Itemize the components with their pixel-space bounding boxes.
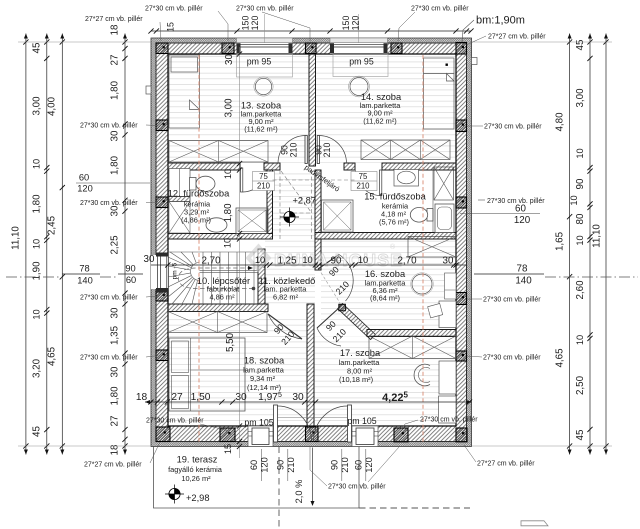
svg-text:pm 105: pm 105 (347, 416, 376, 426)
svg-text:10: 10 (575, 335, 585, 345)
svg-text:2,60: 2,60 (575, 280, 586, 300)
svg-text:27*30 cm vb. pillér: 27*30 cm vb. pillér (411, 6, 469, 13)
door to room 17 (317, 307, 340, 328)
svg-text:2,50: 2,50 (575, 375, 586, 395)
svg-text:27*27 cm vb. pillér: 27*27 cm vb. pillér (84, 462, 142, 469)
room 17 floor (314, 337, 456, 427)
svg-text:fagyálló kerámia: fagyálló kerámia (168, 465, 223, 474)
svg-text:10: 10 (32, 239, 42, 249)
svg-text:10: 10 (255, 255, 265, 265)
bath12 right wall (267, 170, 273, 234)
room 17 chair (414, 364, 430, 386)
svg-text:140: 140 (77, 276, 93, 286)
svg-text:27: 27 (171, 392, 183, 403)
door 2 swing (348, 405, 352, 442)
bottom terrace door 1 pm105 (248, 426, 273, 447)
svg-text:2,70: 2,70 (397, 256, 417, 267)
room 13 bed (169, 55, 200, 128)
svg-text:45: 45 (32, 426, 43, 437)
svg-text:1,65: 1,65 (555, 231, 566, 251)
room 13 floor (168, 54, 309, 163)
fraction 78/140 left (62, 273, 100, 275)
svg-text:10: 10 (302, 255, 312, 265)
svg-text:pm 95: pm 95 (349, 57, 374, 67)
svg-text:27*30 cm vb. pillér: 27*30 cm vb. pillér (483, 297, 541, 304)
pillar 27*30 right 3 (456, 293, 467, 305)
svg-text:10: 10 (358, 255, 368, 265)
svg-text:1,35: 1,35 (110, 325, 121, 345)
svg-text:®: ® (390, 243, 396, 251)
wardrobe (408, 237, 456, 258)
svg-text:30: 30 (292, 392, 304, 403)
svg-text:210: 210 (340, 457, 350, 473)
corridor floor (265, 239, 315, 307)
pillar 27*27 top-right corner (456, 43, 467, 55)
svg-text:27*30 cm vb. pillér: 27*30 cm vb. pillér (328, 484, 386, 491)
top window 2 (330, 38, 388, 54)
svg-text:18: 18 (110, 24, 121, 35)
svg-text:90: 90 (276, 460, 286, 470)
svg-text:10: 10 (569, 195, 579, 205)
svg-text:27*30 cm vb. pillér: 27*30 cm vb. pillér (80, 123, 138, 130)
watermark duna house (246, 243, 404, 273)
svg-text:27*30 cm vb. pillér: 27*30 cm vb. pillér (80, 355, 138, 362)
right dimension chains (569, 34, 571, 455)
svg-text:120: 120 (514, 215, 531, 226)
svg-text:210: 210 (289, 143, 299, 158)
window 2 interior niche (333, 54, 388, 77)
window 1 interior niche (237, 54, 293, 77)
svg-text:10,26 m²: 10,26 m² (181, 474, 211, 483)
pillar 27*30 bottom 1 (220, 428, 235, 442)
svg-text:(11,62 m²): (11,62 m²) (244, 125, 278, 134)
terrace door annotation fractions (260, 449, 262, 481)
room 18 bed (169, 338, 245, 411)
svg-text:3,00: 3,00 (224, 98, 235, 118)
hall top wall segments y163-170 (168, 163, 240, 170)
svg-text:16. szoba: 16. szoba (365, 269, 406, 279)
pillar 27*30 bottom 2 (306, 427, 319, 442)
small exterior fixture right (472, 58, 478, 65)
terrace slope arrow 2.0% (312, 448, 314, 505)
middle dimension chain (151, 264, 466, 266)
svg-text:60: 60 (249, 460, 259, 470)
door corridor to room 18 (268, 314, 302, 339)
svg-text:30: 30 (235, 392, 247, 403)
pillar 27*30 top-centre (306, 43, 317, 54)
door 1 swing (274, 405, 278, 442)
bath12 toilet (190, 176, 216, 191)
pillar 27*30 bottom 3 (394, 428, 408, 442)
svg-text:1,80: 1,80 (110, 386, 121, 406)
svg-text:27*30 cm vb. pillér: 27*30 cm vb. pillér (236, 6, 294, 13)
svg-text:1,80: 1,80 (223, 203, 234, 223)
svg-text:27: 27 (110, 55, 121, 66)
svg-text:80: 80 (575, 213, 586, 224)
room 14 closet column (424, 58, 455, 129)
level marker (165, 485, 184, 504)
orange section line right (422, 55, 424, 444)
room 14 wardrobe (361, 140, 450, 160)
pillar 27*27 bottom-left corner (156, 427, 170, 442)
wall between rooms 18 and 17 (307, 304, 314, 426)
svg-text:27*30 cm vb. pillér: 27*30 cm vb. pillér (483, 355, 541, 362)
svg-text:45: 45 (575, 39, 586, 50)
svg-text:30: 30 (224, 54, 235, 65)
svg-text:18: 18 (136, 392, 148, 403)
wall between rooms 16 and 17 (367, 330, 456, 337)
svg-text:4,00: 4,00 (47, 96, 58, 116)
wardrobe (434, 167, 454, 200)
svg-text:30: 30 (110, 307, 121, 318)
svg-text:60: 60 (126, 275, 136, 285)
svg-text:27: 27 (110, 416, 121, 427)
svg-text:27*30 cm vb. pillér: 27*30 cm vb. pillér (484, 124, 542, 131)
svg-text:10: 10 (575, 235, 585, 245)
wardrobe (369, 336, 456, 359)
svg-text:27*30 cm vb. pillér: 27*30 cm vb. pillér (80, 200, 138, 207)
svg-text:(4,86 m²): (4,86 m²) (181, 216, 211, 225)
svg-text:1,25: 1,25 (277, 256, 297, 267)
svg-text:1,50: 1,50 (191, 392, 211, 403)
svg-text:90: 90 (330, 460, 340, 470)
pillar 27*30 right 1 (456, 120, 467, 132)
bath15 shower (322, 200, 354, 232)
svg-text:5,50: 5,50 (225, 332, 236, 352)
bath15 toilet (410, 208, 433, 223)
door corridor to room 16 (318, 255, 339, 270)
svg-text:210: 210 (356, 182, 370, 191)
svg-text:1,80: 1,80 (32, 194, 43, 214)
svg-text:150: 150 (241, 16, 251, 31)
corridor bottom wall (168, 304, 268, 312)
svg-text:75: 75 (259, 172, 268, 181)
svg-text:12. fürdőszoba: 12. fürdőszoba (168, 189, 230, 199)
svg-text:120: 120 (260, 457, 270, 473)
central wall between rooms 13 and 14 (309, 54, 316, 166)
outer main wall band (156, 43, 467, 442)
room 18 floor (168, 315, 307, 426)
wardrobe (168, 312, 267, 333)
orange section line left (198, 55, 200, 444)
svg-text:(12,14 m²): (12,14 m²) (247, 383, 281, 392)
svg-text:90: 90 (125, 264, 135, 274)
diagonal wall between corridor and rooms 16/17 (338, 304, 376, 340)
svg-text:(8,64 m²): (8,64 m²) (370, 294, 400, 303)
room 17 cabinet (439, 396, 457, 423)
svg-text:10: 10 (223, 169, 233, 179)
fraction 60/120 right (460, 213, 540, 215)
svg-text:210: 210 (322, 143, 332, 158)
stair walking line (179, 268, 254, 289)
bath15 left wall (315, 170, 321, 233)
outer insulation band (151, 38, 472, 447)
bath12 door swing (241, 168, 243, 192)
bath12 shaft cabinet (169, 169, 190, 197)
svg-text:15: 15 (166, 22, 176, 32)
svg-text:11,10: 11,10 (11, 226, 22, 250)
room 17 desk (439, 361, 456, 394)
bath12 door size labels 75/210 (253, 172, 275, 191)
svg-text:1,80: 1,80 (110, 155, 121, 175)
pillar 27*30 top-right (391, 43, 402, 54)
svg-text:27*27 cm vb. pillér: 27*27 cm vb. pillér (488, 34, 546, 41)
svg-text:30: 30 (110, 130, 121, 141)
svg-text:4,65: 4,65 (47, 346, 58, 366)
svg-text:60: 60 (515, 204, 526, 215)
svg-text:15: 15 (223, 444, 233, 454)
bottom terrace door 2 pm105 (352, 426, 378, 447)
pillar 27*30 top (222, 43, 234, 54)
small exterior fixture left (146, 86, 151, 94)
svg-text:140: 140 (515, 276, 532, 287)
svg-text:30: 30 (110, 366, 121, 377)
svg-text:3,00: 3,00 (575, 88, 586, 108)
svg-text:10: 10 (223, 238, 233, 248)
svg-text:+2,87: +2,87 (293, 196, 317, 206)
svg-text:pm 95: pm 95 (247, 57, 272, 67)
svg-text:3,20: 3,20 (32, 358, 43, 378)
extension lines top/bottom (18, 41, 151, 43)
svg-text:2,45: 2,45 (47, 215, 58, 235)
pillar 27*27 bottom-right corner (456, 428, 467, 442)
svg-text:60: 60 (79, 173, 89, 183)
svg-text:30: 30 (443, 256, 454, 267)
attic hatch dashed outline (273, 170, 357, 239)
svg-text:45: 45 (32, 42, 43, 53)
room 14 round table (350, 78, 368, 96)
svg-text:9,34 m²: 9,34 m² (250, 374, 276, 383)
svg-text:bm:1,90m: bm:1,90m (476, 15, 525, 27)
bath15 washbasin (394, 170, 419, 187)
svg-text:27*30 cm vb. pillér: 27*30 cm vb. pillér (146, 418, 204, 425)
svg-text:27*30 cm vb. pillér: 27*30 cm vb. pillér (145, 6, 203, 13)
svg-text:90: 90 (331, 256, 342, 267)
svg-text:10: 10 (575, 148, 585, 158)
bath12 shower (236, 208, 268, 234)
fraction 90/60 left (118, 273, 143, 275)
corridor right wall stub (315, 239, 321, 270)
room 13 round table (255, 78, 271, 94)
pillar 27*27 top-left corner (156, 43, 168, 54)
left stair window (151, 253, 168, 293)
svg-text:60: 60 (354, 460, 364, 470)
svg-text:+2,98: +2,98 (186, 493, 210, 503)
fraction 78/140 right (474, 273, 544, 275)
svg-text:4,86 m²: 4,86 m² (209, 293, 235, 302)
pillar 27*30 right 2 (456, 197, 467, 208)
bath12 bottom wall (168, 234, 273, 240)
svg-text:120: 120 (364, 457, 374, 473)
svg-text:(10,18 m²): (10,18 m²) (339, 375, 373, 384)
svg-text:pm 105: pm 105 (244, 418, 273, 428)
svg-text:1,80: 1,80 (110, 80, 121, 100)
svg-text:11,10: 11,10 (592, 224, 603, 248)
svg-text:27*30 cm vb. pillér: 27*30 cm vb. pillér (80, 295, 138, 302)
svg-text:1,90: 1,90 (32, 261, 43, 281)
svg-text:90: 90 (575, 178, 586, 189)
svg-text:6,82 m²: 6,82 m² (273, 293, 299, 302)
room 14 floor (316, 54, 457, 163)
top window 1 (237, 38, 293, 54)
room 16 nightstand (445, 273, 457, 299)
svg-text:10: 10 (32, 309, 42, 319)
svg-text:4,65: 4,65 (555, 348, 566, 368)
svg-text:27*27 cm vb. pillér: 27*27 cm vb. pillér (85, 16, 143, 23)
svg-text:27*27 cm vb. pillér: 27*27 cm vb. pillér (477, 461, 535, 468)
doors from landing to rooms 13/14 (305, 136, 307, 164)
svg-text:17. szoba: 17. szoba (340, 348, 381, 358)
svg-text:78: 78 (517, 264, 528, 275)
svg-text:27*30 cm vb. pillér: 27*30 cm vb. pillér (420, 417, 478, 424)
top dimension chain (151, 30, 471, 32)
terrace outline (154, 447, 360, 509)
interior vertical chain x=239.5 (239, 47, 241, 458)
svg-text:210: 210 (257, 182, 271, 191)
svg-text:210: 210 (286, 457, 296, 473)
room 16 floor (321, 239, 456, 330)
centre axis dash-dot line (6, 276, 62, 278)
svg-text:45: 45 (575, 429, 586, 440)
wall between stairwell and corridor (258, 249, 265, 304)
svg-text:2,25: 2,25 (110, 235, 121, 255)
staircase treads (half-turn stair) (168, 252, 258, 304)
bath15 door size labels 75/210 (351, 172, 377, 191)
bath12 washbasin (206, 218, 227, 232)
svg-text:3,00: 3,00 (32, 96, 43, 116)
left dimension chains (25, 34, 27, 455)
svg-text:19. terasz: 19. terasz (177, 455, 218, 465)
svg-text:150: 150 (341, 16, 351, 31)
svg-text:18. szoba: 18. szoba (244, 356, 285, 366)
svg-text:10: 10 (32, 159, 42, 169)
svg-text:78: 78 (79, 264, 89, 274)
room 16 round table (412, 274, 432, 294)
bath15 door swing (380, 170, 382, 196)
pillar 27*30 left 3 (156, 291, 168, 302)
svg-text:(5,76 m²): (5,76 m²) (379, 218, 409, 227)
svg-text:18: 18 (110, 444, 121, 455)
bath15 bottom wall (315, 233, 456, 240)
svg-text:15. fürdőszoba: 15. fürdőszoba (364, 192, 426, 202)
bath15 bathtub (435, 204, 454, 233)
svg-text:2,0 %: 2,0 % (294, 480, 304, 504)
svg-text:27*30 cm vb. pillér: 27*30 cm vb. pillér (487, 198, 545, 205)
pillar 27*30 left 4 (156, 350, 168, 361)
svg-text:(11,62 m²): (11,62 m²) (363, 117, 397, 126)
pillar 27*30 left 2 (156, 197, 168, 208)
svg-text:2,70: 2,70 (201, 256, 221, 267)
pillar 27*30 right 4 (456, 351, 467, 361)
svg-text:30: 30 (144, 254, 155, 265)
pillar 27*30 left 1 (156, 120, 168, 131)
svg-text:4,80: 4,80 (555, 112, 566, 132)
svg-text:75: 75 (359, 172, 368, 181)
room 13 wardrobe (169, 141, 268, 163)
svg-text:120: 120 (77, 184, 93, 194)
level marker (280, 208, 299, 227)
room 16 desk and chair (439, 301, 456, 328)
svg-text:120: 120 (250, 16, 260, 31)
bottom dimension chain (145, 401, 472, 403)
landing floor (273, 170, 316, 239)
north/scale arrow bottom right (521, 521, 548, 526)
fraction 60/120 left (76, 182, 150, 184)
